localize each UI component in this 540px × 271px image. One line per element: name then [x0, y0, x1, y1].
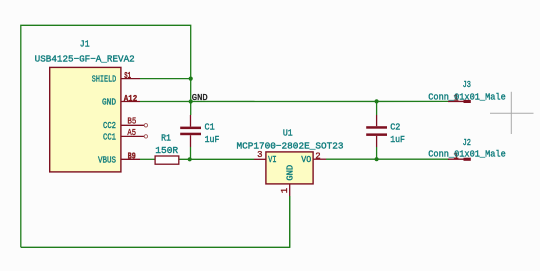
wire GND row from J1 to J3 — [140, 100, 449, 102]
svg-text:C1: C1 — [205, 122, 216, 133]
U1 pin 1 GND stub — [289, 184, 291, 196]
svg-text:USB4125−GF−A_REVA2: USB4125−GF−A_REVA2 — [35, 54, 135, 65]
svg-text:Conn_01x01_Male: Conn_01x01_Male — [428, 91, 506, 102]
connector J3 male pin line — [448, 100, 465, 102]
resistor R1 body — [155, 156, 179, 164]
svg-text:U1: U1 — [283, 128, 293, 139]
J1 pin CC1 open end circle — [144, 135, 147, 138]
svg-text:VI: VI — [268, 155, 277, 165]
svg-text:MCP1700−2802E_SOT23: MCP1700−2802E_SOT23 — [237, 141, 344, 152]
capacitor C1 bottom plate — [180, 133, 201, 136]
wire C2 top stub — [376, 101, 378, 115]
J1 pin SHIELD stub — [121, 78, 140, 80]
J1 pin CC2 stub — [121, 124, 144, 126]
connector J2 male pin tip rect — [464, 158, 471, 161]
svg-text:Conn_01x01_Male: Conn_01x01_Male — [428, 148, 506, 159]
svg-text:S1: S1 — [124, 71, 131, 81]
wire R1 to U1 VI — [179, 158, 254, 160]
svg-text:J3: J3 — [463, 79, 471, 90]
wire C2 bottom stub — [376, 147, 378, 159]
svg-text:A5: A5 — [127, 128, 136, 138]
svg-text:1uF: 1uF — [205, 134, 220, 145]
wire U1 VO to J2 — [326, 158, 449, 160]
svg-text:1uF: 1uF — [390, 134, 405, 145]
capacitor C2 bottom plate — [366, 133, 387, 136]
svg-text:J1: J1 — [80, 39, 90, 50]
junction at VO row/C2 — [375, 157, 379, 161]
svg-text:CC2: CC2 — [103, 121, 116, 131]
svg-text:SHIELD: SHIELD — [92, 74, 116, 84]
junction at GND row/C2 — [375, 99, 379, 103]
cursor crosshair vertical — [510, 92, 512, 134]
wire GND junction down to C1 top — [190, 102, 192, 116]
capacitor C2 top plate — [366, 126, 387, 129]
svg-text:150R: 150R — [155, 145, 178, 156]
wire GND loop bottom to U1 GND pin — [21, 196, 290, 247]
junction at SHIELD/vertical — [189, 77, 193, 81]
U1 pin 2 VO stub — [313, 158, 326, 160]
svg-text:VO: VO — [301, 155, 311, 165]
wire SHIELD row — [140, 78, 191, 80]
junction at GND row/vertical — [189, 99, 193, 103]
svg-text:J2: J2 — [463, 137, 471, 148]
svg-text:R1: R1 — [161, 133, 171, 144]
svg-text:C2: C2 — [390, 121, 400, 132]
svg-text:GND: GND — [285, 165, 295, 181]
capacitor C1 top pin — [190, 115, 192, 127]
capacitor C2 bottom pin — [376, 136, 378, 147]
J1 pin CC2 open end circle — [144, 124, 147, 127]
svg-text:1: 1 — [280, 188, 290, 193]
junction at VBUS row/C1 — [188, 157, 192, 161]
wire U1 GND pin down — [289, 196, 291, 247]
svg-text:3: 3 — [257, 150, 262, 160]
wire GND loop border left/top — [21, 25, 191, 247]
svg-text:VBUS: VBUS — [98, 155, 116, 165]
svg-text:A12: A12 — [124, 94, 138, 104]
capacitor C1 bottom pin — [190, 135, 192, 147]
wire VBUS from J1 to R1 — [140, 158, 155, 160]
svg-text:CC1: CC1 — [103, 132, 116, 142]
svg-text:B9: B9 — [128, 151, 136, 161]
regulator U1 body — [266, 152, 313, 184]
wire vertical SHIELD to GND junction — [190, 79, 192, 102]
connector J3 male pin tip rect — [464, 100, 471, 103]
svg-text:2: 2 — [315, 151, 320, 161]
U1 pin 3 VI stub — [254, 158, 266, 160]
capacitor C2 top pin — [376, 115, 378, 126]
svg-text:B5: B5 — [127, 116, 136, 126]
J1 pin GND stub — [121, 101, 140, 103]
wire C1 bottom to VBUS junction — [190, 147, 192, 159]
svg-text:GND: GND — [102, 98, 116, 108]
connector J2 male pin line — [448, 158, 465, 160]
J1 pin CC1 stub — [121, 135, 144, 137]
svg-text:GND: GND — [192, 92, 208, 103]
connector J1 body — [50, 67, 121, 171]
capacitor C1 top plate — [180, 127, 201, 130]
J1 pin VBUS stub — [121, 158, 140, 160]
cursor crosshair horizontal — [490, 112, 534, 114]
